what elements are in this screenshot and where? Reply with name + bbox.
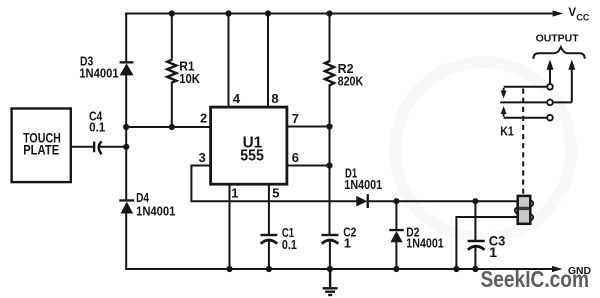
svg-text:2: 2 [200,111,207,126]
resistor R2 [325,61,334,85]
touch plate box [12,109,71,183]
svg-text:1: 1 [344,235,351,250]
svg-text:7: 7 [292,111,299,126]
output arrow right [571,69,573,103]
svg-text:OUTPUT: OUTPUT [536,33,580,45]
svg-text:4: 4 [233,91,241,106]
wire pin 6 line [287,165,330,167]
wire pin 2 line [126,126,211,128]
svg-text:10K: 10K [179,71,200,86]
wire bottom GND rail [126,268,553,270]
svg-text:1N4001: 1N4001 [344,177,382,192]
svg-text:5: 5 [272,185,279,200]
diode D3 [120,61,134,75]
op-amp U1 555 box [211,107,287,184]
wire R1 branch vertical [171,14,173,128]
output arrow left [549,69,551,85]
svg-text:1N4001: 1N4001 [406,235,443,250]
svg-text:1N4001: 1N4001 [79,65,118,80]
wire pin 8 branch [267,14,269,107]
svg-text:1: 1 [489,244,497,260]
wire left vertical branch (D3/D4 column) [125,14,127,270]
wire pin 4 branch [228,14,230,107]
VCC arrowhead [553,10,564,16]
ground [323,269,338,295]
wire pin 5 to C1 [268,184,270,269]
diode D1 [356,194,369,208]
wire touch plate to C4 [71,146,93,148]
wire pin 1 to ground rail [229,184,231,269]
faint watermark ring [395,62,571,238]
svg-text:820K: 820K [338,74,364,89]
svg-text:K1: K1 [500,124,514,139]
svg-text:6: 6 [292,150,299,165]
diode D2 [389,229,403,242]
wire C4 to vertical branch [99,146,126,148]
diode D4 [119,199,134,213]
svg-text:1: 1 [231,185,238,200]
wire pin 3 loop to D1 line [191,166,356,202]
wire VCC top rail [126,13,553,15]
svg-text:PLATE: PLATE [23,142,59,158]
brace [533,47,584,59]
svg-text:555: 555 [240,148,264,165]
svg-text:3: 3 [199,150,206,165]
relay contacts K1 [500,87,572,118]
wire relay return [456,217,517,269]
wire R2 branch vertical [329,14,331,234]
wire D1 to relay coil [369,200,518,202]
resistor R1 [167,60,176,83]
svg-text:V: V [568,7,576,19]
svg-text:CC: CC [576,12,589,22]
svg-text:SeekIC.com: SeekIC.com [481,266,590,292]
svg-text:8: 8 [271,91,278,106]
wire C3 branch [474,201,476,269]
svg-text:1N4001: 1N4001 [136,203,175,218]
wire pin 7 line [287,126,330,128]
GND arrowhead [552,266,563,272]
capacitor C1 [260,234,277,244]
dashed link [522,89,524,196]
capacitor C3 [468,240,485,250]
wire C2 bottom to rail [329,241,331,269]
svg-text:0.1: 0.1 [89,119,105,134]
capacitor C2 [322,234,339,244]
svg-text:0.1: 0.1 [282,237,297,252]
relay coil K1 [515,196,533,224]
wire D2 branch [395,201,397,269]
capacitor C4 [93,141,102,154]
